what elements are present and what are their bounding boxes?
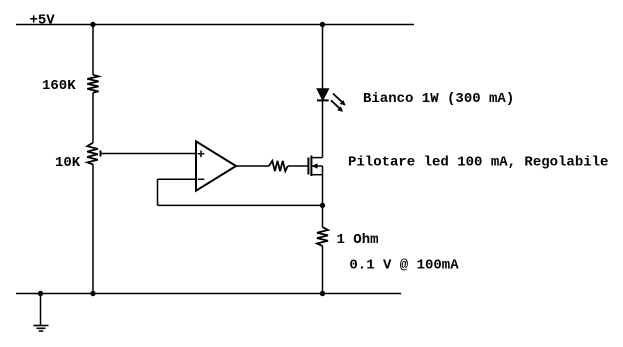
ground symbol xyxy=(34,326,49,332)
junction top rail left xyxy=(90,22,95,27)
svg-text:+5V: +5V xyxy=(30,13,56,29)
op-amp - symbol xyxy=(198,178,205,180)
wire wiper to op-amp + input xyxy=(101,153,197,155)
junction bottom rail ground xyxy=(38,291,43,296)
op-amp U1 triangle xyxy=(196,141,236,190)
resistor R3 gate resistor xyxy=(269,161,288,171)
transistor Q1 source stub xyxy=(311,174,322,176)
wire +5V top rail xyxy=(16,24,414,26)
svg-text:Bianco 1W (300 mA): Bianco 1W (300 mA) xyxy=(363,91,514,107)
svg-text:0.1 V @ 100mA: 0.1 V @ 100mA xyxy=(349,257,459,273)
wire gate resistor to MOSFET gate xyxy=(288,165,309,167)
wire 160K to 10K pot xyxy=(92,93,94,143)
wire bottom ground rail xyxy=(16,293,401,295)
junction bottom rail 1 Ohm xyxy=(320,291,325,296)
wire pot to bottom rail xyxy=(92,164,94,293)
transistor Q1 drain stub xyxy=(311,157,322,159)
wire 1 Ohm to bottom rail xyxy=(322,246,324,294)
wire feedback bottom horizontal xyxy=(158,204,323,206)
svg-text:10K: 10K xyxy=(55,155,81,171)
junction bottom rail left branch xyxy=(90,291,95,296)
resistor R4 1 Ohm xyxy=(317,227,328,246)
LED D1 triangle xyxy=(317,89,329,101)
wire op-amp output xyxy=(236,165,269,167)
wire left branch: top rail to 160K xyxy=(92,25,94,76)
ground stem xyxy=(40,294,42,326)
potentiometer R2 wiper xyxy=(100,151,102,157)
junction top rail LED branch xyxy=(320,22,325,27)
resistor R1 160K xyxy=(87,75,98,93)
op-amp + symbol xyxy=(198,151,205,158)
wire - input xyxy=(158,178,197,180)
wire source down to 1 Ohm xyxy=(322,166,324,227)
svg-text:Pilotare led 100 mA, Regolabil: Pilotare led 100 mA, Regolabile xyxy=(348,155,608,171)
wire LED branch from top rail xyxy=(322,25,324,90)
transistor Q1 body arrow xyxy=(311,163,322,169)
svg-text:160K: 160K xyxy=(42,78,76,94)
LED emission arrow 2 xyxy=(331,100,343,112)
LED emission arrow 1 xyxy=(333,94,346,106)
potentiometer R2 10K body xyxy=(87,143,98,165)
wire drain up to LED xyxy=(322,100,324,157)
svg-text:1 Ohm: 1 Ohm xyxy=(337,232,379,248)
wire feedback left vertical xyxy=(157,179,159,205)
LED D1 cathode bar xyxy=(317,99,329,101)
junction source feedback node xyxy=(320,203,325,208)
transistor Q1 MOSFET channel bar xyxy=(310,156,312,177)
transistor Q1 MOSFET gate bar xyxy=(307,158,309,175)
